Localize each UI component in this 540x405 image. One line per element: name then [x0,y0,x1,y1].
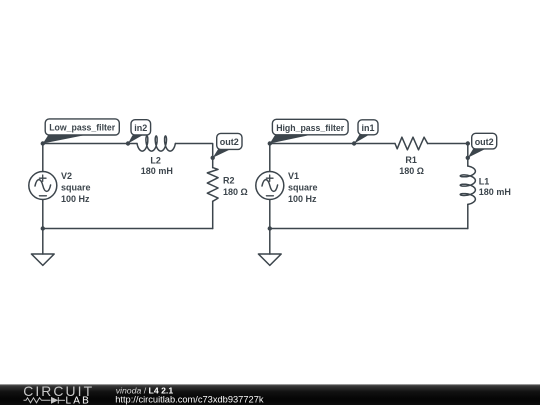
resistor R2 zigzag [207,168,218,202]
voltage source V1 circle [256,172,284,200]
ground symbol left [31,254,54,265]
logo diode cathode bar [57,397,59,404]
svg-text:out2: out2 [220,137,239,147]
callout tail out2 right [468,149,486,158]
svg-text:square: square [288,182,318,192]
svg-text:R1: R1 [405,155,417,165]
svg-text:180 mH: 180 mH [141,166,173,176]
wire R2 bottom to ground net [212,201,214,228]
node dot V2 top [41,141,45,145]
node dot V1 top [268,141,272,145]
inductor L2 coil [137,136,175,151]
ground stub left [42,229,44,255]
node dot out2 right corner [466,141,470,145]
wire R1 to corner down to L1 [428,144,468,167]
V1 plus sign [266,175,273,181]
node dot V2 bottom [41,226,45,230]
svg-text:LAB: LAB [66,396,92,405]
inductor L1 coil [460,166,475,204]
net label box Low_pass_filter [45,119,119,135]
logo wire resistor zigzag [24,398,51,403]
ground stub right [269,229,271,255]
wire bottom right net [270,228,468,230]
svg-text:Low_pass_filter: Low_pass_filter [49,123,115,133]
logo diode triangle [51,397,58,404]
node dot out2 left [211,156,215,160]
net label box out2 left [217,133,242,149]
svg-text:180 mH: 180 mH [479,187,511,197]
resistor R1 zigzag [395,137,428,150]
svg-text:V1: V1 [288,171,299,181]
V1 sine wave [262,180,278,192]
ground symbol right [258,254,281,265]
svg-text:http://circuitlab.com/c73xdb93: http://circuitlab.com/c73xdb937727k [115,394,264,404]
callout tail High_pass_filter [270,135,310,144]
svg-text:in1: in1 [361,123,374,133]
svg-text:square: square [61,182,91,192]
svg-text:V2: V2 [61,171,72,181]
wire V2 bottom lead [42,200,44,229]
node dot in2 [126,141,130,145]
svg-text:L1: L1 [479,176,490,186]
V2 plus sign [39,175,46,181]
svg-text:100 Hz: 100 Hz [61,194,90,204]
wire bottom left net [43,228,213,230]
callout tail in2 [128,135,143,143]
net label box in2 [131,120,151,135]
net label box in1 [358,120,378,135]
net label box out2 right [472,133,497,149]
svg-text:out2: out2 [475,137,494,147]
callout tail out2 left [213,149,231,158]
footer bar [0,384,540,405]
V2 minus sign [39,195,46,197]
wire from L2 to corner and down to R2 [175,144,212,168]
callout tail Low_pass_filter [43,136,83,144]
wire V1 bottom lead [269,200,271,229]
svg-text:in2: in2 [134,123,147,133]
svg-text:180 Ω: 180 Ω [223,187,248,197]
svg-text:High_pass_filter: High_pass_filter [276,123,344,133]
voltage source V2 circle [29,172,57,200]
node dot in1 [352,141,356,145]
svg-text:R2: R2 [223,176,235,186]
node dot out2 right [466,156,470,160]
wire top right net (V1 to R1) [270,143,395,145]
wire L1 bottom to ground net [467,204,469,228]
wire top-left net (V2 plus to in2 node) [43,143,137,145]
callout tail in1 [354,135,369,144]
wire V1 top lead [269,144,271,172]
logo diode wire [58,399,65,401]
wire V2 top lead [42,144,44,172]
svg-text:180 Ω: 180 Ω [399,166,424,176]
net label box High_pass_filter [272,119,348,135]
V2 sine wave [35,180,51,192]
node dot V1 bottom [268,226,272,230]
V1 minus sign [266,195,273,197]
svg-text:100 Hz: 100 Hz [288,194,317,204]
svg-text:L2: L2 [150,155,161,165]
